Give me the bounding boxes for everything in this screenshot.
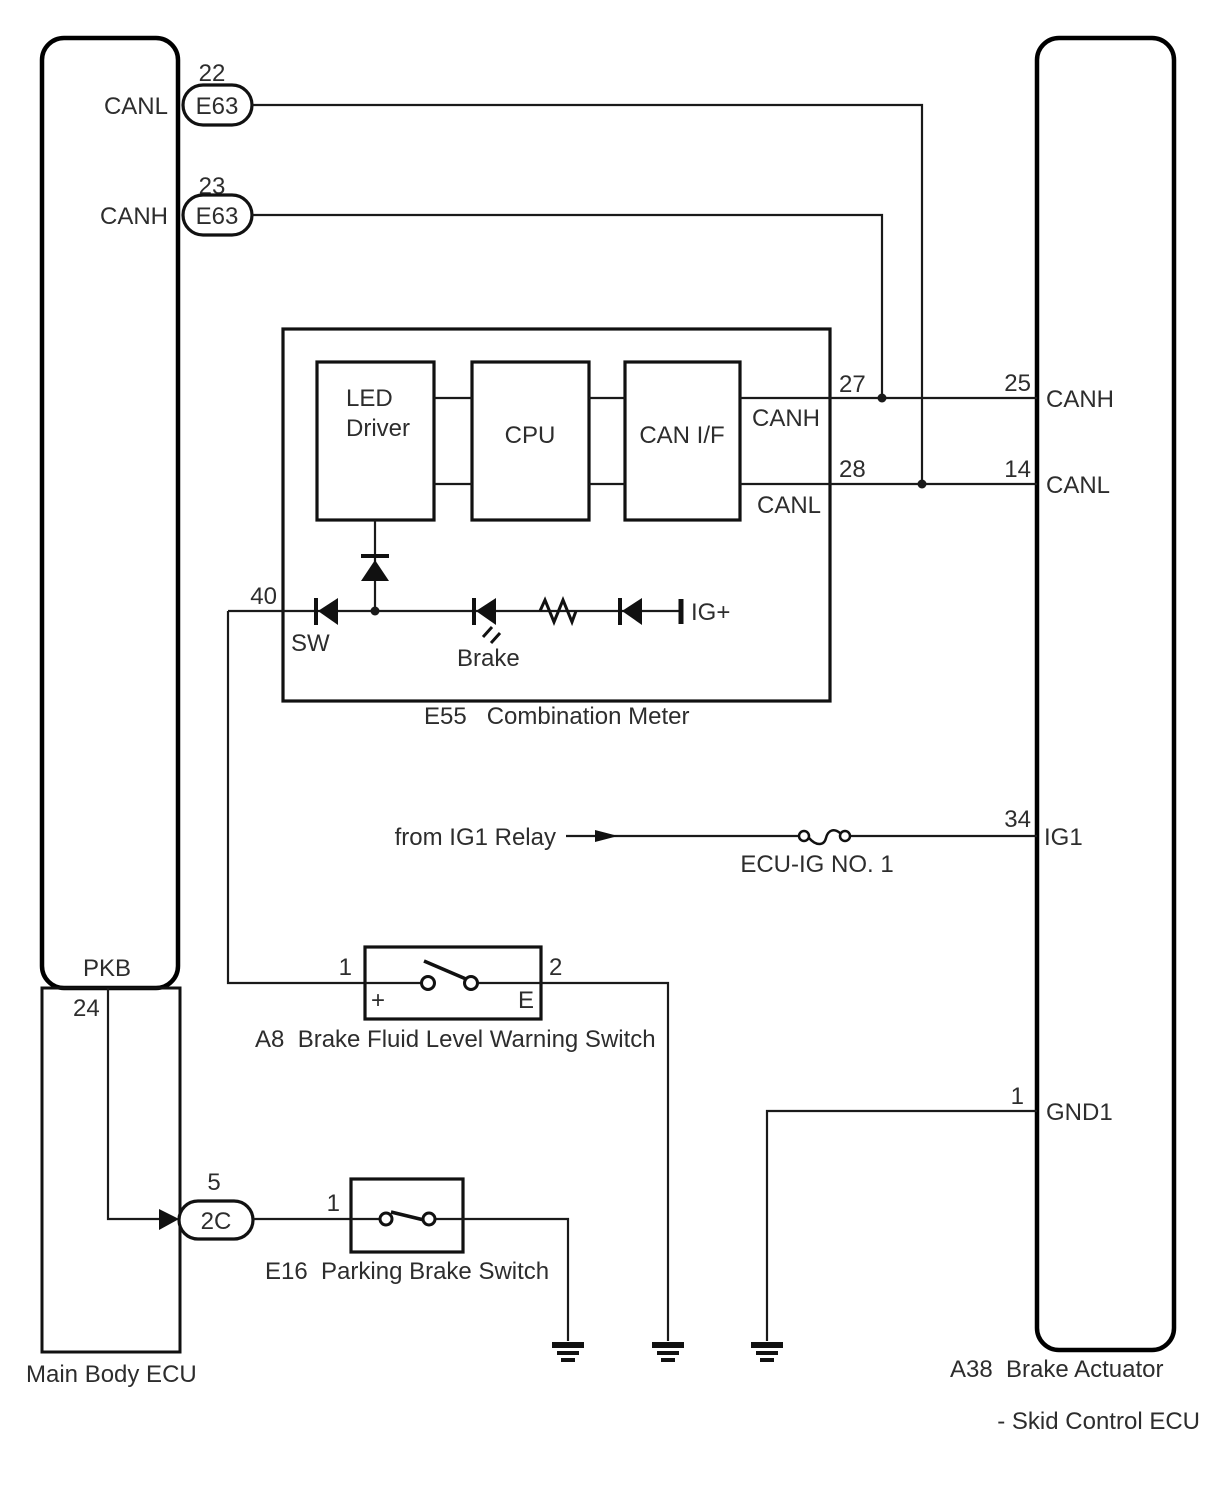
svg-text:GND1: GND1 xyxy=(1046,1099,1113,1126)
svg-text:E63: E63 xyxy=(196,203,239,230)
ground (GND1) xyxy=(751,1345,783,1360)
Main Body ECU lower block xyxy=(42,988,180,1352)
wire LED Driver to CPU upper xyxy=(434,397,472,399)
svg-text:LED: LED xyxy=(346,385,393,412)
wire lamp bus pin 40 xyxy=(228,610,681,612)
connector 2C xyxy=(179,1201,253,1239)
svg-text:A8 Brake Fluid Level Warning: A8 Brake Fluid Level Warning Switch xyxy=(255,1026,656,1053)
wire CANH from E63-23 to vertical drop xyxy=(252,215,882,398)
svg-text:1: 1 xyxy=(327,1190,340,1217)
svg-text:Brake: Brake xyxy=(457,645,520,672)
svg-text:2: 2 xyxy=(549,954,562,981)
svg-text:Main Body ECU: Main Body ECU xyxy=(26,1361,197,1388)
switch A8 contacts xyxy=(365,961,541,990)
wire LED Driver to CPU lower xyxy=(434,483,472,485)
wire CPU to CAN I/F upper xyxy=(589,397,625,399)
wire CANL pin 28 to pin 14 xyxy=(740,483,1037,485)
svg-text:CPU: CPU xyxy=(505,422,556,449)
svg-text:+: + xyxy=(371,987,385,1014)
wire E16 to ground xyxy=(463,1219,568,1341)
IG+ terminal bar xyxy=(679,599,684,624)
wire CANH pin 27 to pin 25 xyxy=(740,397,1037,399)
svg-text:22: 22 xyxy=(199,60,226,87)
switch A8 box xyxy=(365,947,541,1019)
svg-text:CANH: CANH xyxy=(100,203,168,230)
diode D2 xyxy=(620,598,642,625)
wire 2C to E16 xyxy=(253,1218,351,1220)
svg-text:ECU-IG NO. 1: ECU-IG NO. 1 xyxy=(740,851,893,878)
svg-text:5: 5 xyxy=(207,1169,220,1196)
svg-text:1: 1 xyxy=(1011,1083,1024,1110)
svg-text:A38 Brake Actuator: A38 Brake Actuator xyxy=(950,1356,1163,1383)
svg-text:CANL: CANL xyxy=(757,492,821,519)
svg-text:25: 25 xyxy=(1004,370,1031,397)
svg-text:CAN I/F: CAN I/F xyxy=(639,422,724,449)
svg-text:E55 Combination Meter: E55 Combination Meter xyxy=(424,703,689,730)
svg-text:24: 24 xyxy=(73,995,100,1022)
wire LED Driver down to lamp bus xyxy=(374,520,376,611)
wire CANL from E63-22 to vertical drop xyxy=(252,105,922,484)
wire A8 pin2 to ground xyxy=(541,983,668,1341)
A38 Skid Control ECU block xyxy=(1037,38,1174,1350)
fuse ECU-IG NO. 1 xyxy=(799,830,850,844)
Main Body ECU upper block xyxy=(42,38,178,988)
arrow into 2C xyxy=(159,1209,179,1230)
svg-text:1: 1 xyxy=(339,954,352,981)
svg-text:E: E xyxy=(518,987,534,1014)
block LED Driver xyxy=(317,362,434,520)
svg-text:2C: 2C xyxy=(201,1208,232,1235)
svg-text:E16 Parking Brake Switch: E16 Parking Brake Switch xyxy=(265,1258,549,1285)
block CPU xyxy=(472,362,589,520)
svg-text:40: 40 xyxy=(250,583,277,610)
svg-text:CANL: CANL xyxy=(104,93,168,120)
resistor R xyxy=(540,600,576,622)
svg-text:Driver: Driver xyxy=(346,415,410,442)
switch E16 contacts xyxy=(351,1212,463,1225)
connector E63 pin 23 xyxy=(183,195,252,235)
switch E16 box xyxy=(351,1179,463,1252)
svg-text:E63: E63 xyxy=(196,93,239,120)
wire GND1 to ground xyxy=(767,1111,1037,1341)
wire from IG1 relay to pin 34 xyxy=(566,835,1037,837)
svg-text:CANL: CANL xyxy=(1046,472,1110,499)
arrow into wire xyxy=(595,830,618,842)
junction CANL xyxy=(918,480,927,489)
svg-text:PKB: PKB xyxy=(83,955,131,982)
junction lamp bus xyxy=(371,607,380,616)
ground (E16) xyxy=(552,1345,584,1360)
svg-text:CANH: CANH xyxy=(752,405,820,432)
svg-text:SW: SW xyxy=(291,630,330,657)
svg-text:IG+: IG+ xyxy=(691,599,730,626)
svg-text:- Skid Control ECU: - Skid Control ECU xyxy=(997,1408,1200,1435)
wire pin 40 down to A8 pin 1 xyxy=(228,611,365,983)
wire PKB pin 24 to 2C xyxy=(108,988,160,1219)
svg-text:34: 34 xyxy=(1004,806,1031,833)
diode SW xyxy=(316,598,338,625)
LED Brake xyxy=(474,598,500,643)
diode D1 on LED driver leg xyxy=(361,556,389,581)
wire CPU to CAN I/F lower xyxy=(589,483,625,485)
svg-text:27: 27 xyxy=(839,371,866,398)
svg-text:IG1: IG1 xyxy=(1044,824,1083,851)
svg-text:14: 14 xyxy=(1004,456,1031,483)
svg-text:CANH: CANH xyxy=(1046,386,1114,413)
ground (A8) xyxy=(652,1345,684,1360)
junction CANH xyxy=(878,394,887,403)
svg-text:28: 28 xyxy=(839,456,866,483)
connector E63 pin 22 xyxy=(183,85,252,125)
svg-text:from IG1 Relay: from IG1 Relay xyxy=(395,824,556,851)
block CAN I/F xyxy=(625,362,740,520)
combination meter E55 box xyxy=(283,329,830,701)
